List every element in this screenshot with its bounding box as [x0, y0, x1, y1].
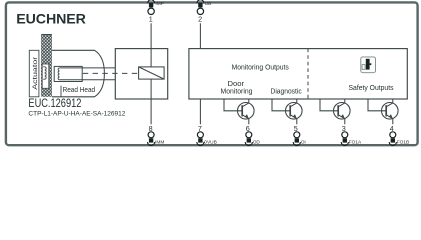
- svg-text:2: 2: [198, 14, 202, 23]
- svg-text:1: 1: [149, 14, 153, 23]
- svg-text:CTP-L1-AP-U-HA-AE-SA-126912: CTP-L1-AP-U-HA-AE-SA-126912: [28, 110, 125, 117]
- svg-text:OD: OD: [253, 139, 261, 145]
- svg-text:IMP: IMP: [155, 1, 164, 7]
- svg-text:Door: Door: [228, 81, 245, 88]
- svg-text:Actuator: Actuator: [32, 57, 39, 90]
- svg-text:Monitoring: Monitoring: [221, 89, 253, 96]
- svg-text:Safety Outputs: Safety Outputs: [349, 85, 394, 92]
- svg-text:EUCHNER: EUCHNER: [16, 11, 85, 27]
- svg-text:0VUB: 0VUB: [204, 139, 217, 145]
- svg-text:Diagnostic: Diagnostic: [271, 89, 303, 96]
- svg-text:EUC.126912: EUC.126912: [28, 96, 81, 110]
- svg-text:FO1A: FO1A: [349, 139, 362, 145]
- svg-text:FO1B: FO1B: [397, 139, 410, 145]
- svg-text:UB: UB: [205, 1, 212, 7]
- svg-text:OI: OI: [301, 139, 306, 145]
- svg-text:Read Head: Read Head: [63, 85, 96, 94]
- svg-text:IMM: IMM: [155, 139, 164, 145]
- svg-text:Monitoring Outputs: Monitoring Outputs: [232, 64, 290, 71]
